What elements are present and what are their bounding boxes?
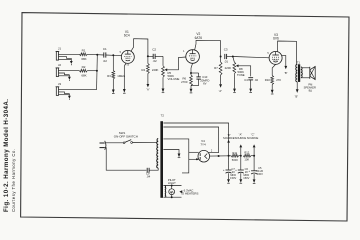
svg-text:ON-OFF SWITCH: ON-OFF SWITCH (114, 134, 138, 138)
svg-text:R2: R2 (82, 65, 86, 69)
node: V2 cathode (190, 72, 192, 74)
svg-text:7Y4: 7Y4 (200, 143, 206, 147)
svg-text:150V: 150V (243, 176, 249, 180)
svg-text:R10: R10 (265, 78, 271, 82)
T2 primary winding (157, 139, 159, 169)
wire HV bottom via vertical (163, 139, 188, 173)
svg-text:C1: C1 (103, 47, 107, 51)
svg-text:R7: R7 (214, 66, 218, 70)
wire V3 cathode (272, 64, 275, 75)
svg-text:10K: 10K (244, 158, 249, 162)
svg-text:7 64: 7 64 (125, 65, 130, 67)
svg-text:TONE: TONE (237, 73, 245, 77)
speaker (302, 67, 310, 69)
wire R1 to junction (87, 53, 97, 55)
svg-text:J2: J2 (58, 63, 62, 67)
svg-text:R3: R3 (107, 74, 111, 78)
wire heater top (163, 185, 181, 187)
svg-text:J3: J3 (58, 82, 62, 86)
svg-text:6V: 6V (203, 82, 207, 86)
ground J1 (70, 61, 73, 64)
svg-text:“B”: “B” (227, 133, 231, 137)
svg-text:220K: 220K (152, 68, 159, 72)
capacitor C6 20MFD 150V (240, 156, 242, 170)
svg-text:68K: 68K (81, 57, 86, 61)
svg-text:SOURCE: SOURCE (247, 136, 259, 140)
svg-text:SOURCE: SOURCE (235, 136, 247, 140)
node: V1 plate junction (147, 55, 149, 57)
node: V2 plate junction (220, 56, 222, 58)
wire HV top to source B line (163, 123, 228, 156)
svg-text:8Ω: 8Ω (309, 89, 312, 93)
ground J3 (68, 96, 71, 99)
node: V3 grid junction (232, 56, 234, 58)
svg-text:.04: .04 (146, 175, 150, 179)
capacitor C1 .02 (97, 54, 104, 56)
ground R5 (162, 89, 165, 93)
resistor R4 220K plate load (147, 56, 149, 63)
svg-text:6AU6: 6AU6 (125, 57, 131, 60)
wire plate stubs (189, 151, 199, 153)
source tag A below R7 (219, 84, 222, 87)
resistor R3 1MEG grid leak (112, 55, 114, 70)
svg-text:SOURCE: SOURCE (223, 136, 235, 140)
potentiometer R8 500K TONE (233, 57, 235, 63)
wire plug to switch (106, 142, 124, 144)
label 6.3VAC TO HEATERS (179, 190, 182, 193)
svg-text:68K: 68K (81, 73, 86, 77)
node source C (253, 155, 255, 157)
wire V1 cathode (124, 63, 126, 66)
svg-text:5: 5 (120, 51, 122, 54)
svg-text:270: 270 (276, 78, 281, 82)
ground C4 (249, 89, 252, 93)
svg-text:“B”: “B” (284, 71, 288, 75)
svg-text:“A”: “A” (239, 133, 243, 137)
svg-text:C4: C4 (244, 78, 248, 82)
wire V3 screen to source B (282, 56, 286, 66)
source tag A below R4 (147, 84, 150, 87)
T2 core (160, 121, 163, 198)
svg-text:+: + (235, 168, 237, 172)
svg-text:220K: 220K (225, 66, 232, 70)
node: input bus junction (96, 54, 98, 56)
svg-text:“A”: “A” (146, 88, 150, 92)
svg-text:Courtesy The Harmony Co.: Courtesy The Harmony Co. (11, 149, 16, 212)
capacitor C2 .02 (148, 55, 153, 57)
ground R3 (112, 90, 115, 94)
T2 heater secondary (165, 186, 166, 198)
svg-text:T1: T1 (297, 61, 301, 65)
potentiometer R5 500K VOLUME (162, 56, 164, 65)
svg-text:VOLUME: VOLUME (168, 77, 180, 81)
svg-text:6AT6: 6AT6 (195, 36, 203, 40)
svg-text:5: 5 (267, 52, 269, 55)
svg-text:6V6: 6V6 (273, 37, 279, 41)
wire V1 plate (131, 39, 148, 57)
wire V2 cathode (191, 63, 193, 68)
wiper R5 (165, 68, 168, 71)
wire HV tap to rectifier plate (163, 127, 218, 153)
svg-text:.01: .01 (224, 59, 229, 63)
AC plug (100, 142, 105, 144)
svg-text:“B”: “B” (295, 94, 299, 98)
svg-text:.02: .02 (254, 78, 258, 82)
svg-text:J1: J1 (58, 47, 62, 51)
ground R10 (271, 90, 274, 94)
svg-text:+: + (223, 168, 225, 172)
wire V4 cathode bus (210, 155, 232, 157)
wire V2 plate (195, 40, 221, 56)
svg-text:Fig. 10-2. Harmony Model H-304: Fig. 10-2. Harmony Model H-304A. (3, 99, 10, 212)
wire V3 plate (277, 41, 296, 64)
svg-text:.02: .02 (153, 59, 158, 63)
ground HV centertap (163, 150, 179, 154)
ground J2 (68, 77, 71, 80)
capacitor C5 20-20 400V (253, 156, 255, 171)
svg-text:C3: C3 (224, 48, 228, 52)
pilot lamp (171, 186, 173, 189)
svg-text:2: 2 (211, 149, 213, 152)
svg-text:R1: R1 (82, 49, 86, 53)
svg-text:.02: .02 (103, 59, 108, 63)
wire R2 to bus (87, 70, 97, 72)
node: V1 grid junction (112, 54, 114, 56)
wire T1 primary bottom to source B (296, 82, 298, 90)
wire input bus vertical (96, 55, 99, 90)
svg-text:TO HEATERS: TO HEATERS (180, 192, 198, 196)
svg-text:“A”: “A” (219, 89, 223, 93)
wire plug bottom to C9 (105, 148, 147, 171)
wire heater bottom (163, 196, 181, 198)
ground V2 cathode (190, 89, 193, 93)
svg-text:+: + (248, 169, 250, 173)
svg-text:6AQ5: 6AQ5 (273, 59, 279, 62)
ground V1 cathode (123, 89, 126, 93)
svg-text:6C4: 6C4 (124, 34, 130, 38)
wiper R8 (236, 64, 239, 67)
svg-text:400V: 400V (257, 172, 263, 176)
svg-text:150V: 150V (230, 176, 236, 180)
capacitor C7 20MFD 150V (228, 156, 230, 170)
svg-text:6AV6: 6AV6 (190, 57, 196, 60)
svg-text:R4: R4 (142, 68, 146, 72)
wire switch to T2 primary (133, 141, 158, 143)
border frame (21, 13, 349, 221)
svg-text:T2: T2 (161, 113, 165, 117)
wire to V3 grid (233, 57, 269, 58)
node source A (240, 155, 242, 157)
capacitor C10 20MFD 6V bypass (191, 72, 199, 74)
svg-text:1: 1 (183, 50, 185, 53)
wire C9 to T2 primary bottom (149, 168, 158, 170)
svg-text:2700: 2700 (181, 80, 188, 84)
ground R8 (233, 89, 236, 93)
resistor R7 220K (220, 57, 222, 63)
svg-text:“C”: “C” (251, 133, 255, 137)
svg-text:5000: 5000 (232, 158, 238, 162)
capacitor C9 .04 line cap (147, 168, 149, 173)
svg-text:C2: C2 (152, 47, 156, 51)
